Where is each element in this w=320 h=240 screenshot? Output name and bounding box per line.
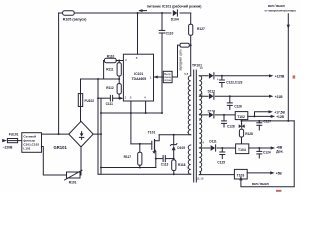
diode D110 (199, 110, 235, 119)
wire filter to bridge (42, 133, 69, 135)
node rail1 cap (221, 75, 223, 77)
svg-text:L101: L101 (23, 146, 30, 150)
wire drain to transformer (159, 134, 191, 136)
diode D111 (199, 139, 235, 151)
node pin4 end (145, 112, 147, 114)
svg-text:R118: R118 (178, 163, 186, 167)
svg-text:+21В: +21В (275, 95, 283, 99)
node C127 tap (258, 120, 260, 122)
wire filter bottom out (42, 147, 67, 176)
svg-text:D104: D104 (171, 18, 179, 22)
svg-text:C127: C127 (263, 119, 271, 123)
wire R110 left drop (103, 61, 105, 80)
node rail2 cap (229, 95, 231, 97)
svg-text:IC101: IC101 (134, 72, 143, 76)
node bridge right bus (100, 133, 102, 135)
wire T103 out arrow +5V (247, 172, 270, 174)
wire arrow +12V (271, 115, 275, 118)
svg-text:от микроконтроллера: от микроконтроллера (265, 9, 297, 13)
diode pair limiter (239, 121, 245, 128)
node bus113 left (100, 112, 102, 114)
wire rail5 in (199, 174, 234, 176)
node R117 tap (139, 143, 141, 145)
svg-text:FU102: FU102 (85, 99, 95, 103)
capacitor C111 (106, 95, 120, 106)
wire FU102 top feed y79 (81, 78, 120, 80)
svg-text:5,8: 5,8 (184, 72, 188, 76)
svg-text:Т104: Т104 (238, 148, 246, 152)
capacitor C124 (257, 148, 271, 158)
svg-text:TDA4605: TDA4605 (132, 77, 147, 81)
regulator T102 (235, 112, 248, 120)
resistor R118 (172, 160, 186, 174)
wire source return y167.5 (101, 167, 156, 169)
svg-text:C126: C126 (234, 104, 242, 108)
resistor R117 (124, 144, 142, 168)
transistor T101 mosfet (148, 130, 159, 167)
winding secondary (199, 76, 201, 175)
resistor R105 (63, 11, 88, 21)
fuse FU101 with mains arrow (2, 132, 22, 149)
diode D112 (199, 89, 269, 99)
svg-text:C113: C113 (161, 162, 169, 166)
svg-text:R127: R127 (197, 27, 205, 31)
svg-text:зарядная цепь: зарядная цепь (178, 49, 182, 71)
wire charge circuit drop (172, 45, 177, 77)
node R111 top (118, 60, 120, 62)
wire bridge bottom to R101 (80, 147, 82, 175)
svg-text:16: 16 (200, 66, 204, 70)
svg-text:R111: R111 (106, 68, 113, 72)
wire pin4 stub (145, 101, 147, 113)
wire rail1 arrow +125V (269, 74, 273, 77)
wire ground bus y113 (101, 112, 162, 114)
diode D109 rail1 (209, 73, 215, 79)
wire primary ground bus (98, 173, 191, 175)
capacitor C128 (222, 115, 235, 128)
svg-text:вкл / выкл: вкл / выкл (268, 4, 285, 8)
svg-text:15,16: 15,16 (196, 176, 204, 180)
node charge-resistor tap (190, 44, 192, 46)
svg-text:+12В: +12В (276, 115, 284, 119)
svg-text:D105: D105 (177, 146, 185, 150)
wire T104 out arrow +8V (249, 147, 271, 149)
node T104 out cap (258, 147, 260, 149)
regulator T103 (234, 169, 247, 179)
node pin5 cross (130, 112, 132, 114)
svg-text:~220В: ~220В (3, 145, 13, 149)
capacitor C113 (156, 156, 174, 167)
svg-text:+125В: +125В (275, 74, 285, 78)
node busA top (97, 78, 99, 80)
wire T102 out (248, 115, 271, 117)
svg-text:С122,С123: С122,С123 (226, 81, 242, 85)
svg-text:C124: C124 (263, 151, 271, 155)
node snubber mid (173, 158, 175, 160)
red mark bottom (276, 190, 281, 192)
svg-text:R101: R101 (69, 181, 77, 185)
op-amp U IC101 TDA4605 box (123, 54, 153, 101)
wire rail2 arrow +21V (269, 95, 273, 98)
wire arrow into pin2 (119, 97, 120, 99)
svg-text:C110: C110 (166, 31, 174, 35)
node out split (254, 115, 256, 117)
winding primary lower (188, 145, 190, 174)
node R117 bottom (139, 167, 141, 169)
red mark a (293, 75, 296, 78)
arrow to label питание IC101 (140, 10, 147, 12)
svg-text:+5В: +5В (276, 171, 283, 175)
wire pin8 stub (137, 13, 139, 54)
svg-text:C125: C125 (217, 161, 225, 165)
wire pin2 feed (98, 97, 110, 99)
node snubber tap (173, 134, 175, 136)
wire uC control down (287, 14, 289, 121)
resistor R128 (239, 129, 253, 144)
wire block to IC pin1 with arrow (154, 76, 164, 79)
fuse FU102 (78, 79, 94, 121)
diode D104 (171, 10, 180, 22)
capacitor C110 (159, 30, 173, 113)
wire bus B (100, 98, 102, 174)
resistor R112 (106, 84, 121, 99)
node R118 ground (173, 173, 175, 175)
diode D105 zener (171, 135, 186, 159)
svg-text:FU101: FU101 (9, 132, 19, 136)
wire gate line (131, 143, 152, 145)
resistor R111 (106, 61, 121, 77)
svg-text:Т103: Т103 (237, 173, 245, 177)
svg-text:C128: C128 (227, 124, 235, 128)
svg-text:D111: D111 (209, 139, 216, 143)
capacitor C125 (217, 148, 225, 165)
svg-text:Т101: Т101 (148, 130, 156, 134)
svg-text:R112: R112 (106, 86, 114, 90)
wire R105 left drop (58, 13, 60, 134)
wire control loop to T103 (241, 121, 294, 187)
svg-text:+17,5В: +17,5В (274, 110, 285, 114)
wire top feed from R105 to R127 corner (59, 12, 191, 14)
wire control line from T102 (241, 120, 243, 121)
wire bridge right to bus (93, 133, 101, 135)
node C110 ground (161, 112, 163, 114)
wire R127 column down to transformer primary top (190, 13, 192, 76)
wire R111-R112 junction (118, 76, 120, 84)
svg-text:Т102: Т102 (237, 115, 245, 119)
node source snubber (155, 158, 157, 160)
winding primary upper (188, 76, 191, 135)
node startup tap (58, 133, 60, 135)
resistor R110 (104, 54, 124, 62)
resistor charge circuit (178, 43, 190, 47)
node rail3 cap (223, 114, 225, 116)
svg-text:огран: огран (164, 79, 171, 82)
bridge rectifier GR101 (54, 121, 94, 150)
block rectifier-limiter (163, 71, 172, 82)
svg-text:R105 (запуск): R105 (запуск) (63, 17, 87, 21)
node C110 junction (161, 12, 163, 14)
resistor R127 (189, 24, 205, 35)
svg-text:питание IC101 (рабочий режим): питание IC101 (рабочий режим) (147, 5, 202, 9)
wire pin5 drive line (130, 101, 132, 144)
regulator T104 (236, 144, 249, 154)
node control T102 (241, 120, 243, 122)
svg-text:Деж.: Деж. (276, 150, 283, 154)
svg-text:R117: R117 (124, 155, 132, 159)
wire C110 column (161, 13, 163, 30)
wire branch +17,5V (255, 112, 269, 117)
wire rail1 (199, 75, 269, 77)
capacitor C122 C123 (217, 76, 243, 87)
node rail4 cap (221, 147, 223, 149)
node source return left (100, 167, 102, 169)
node pin8 junction (137, 12, 139, 14)
node pin2 wire (118, 97, 120, 99)
capacitor C127 (257, 119, 271, 130)
svg-text:GR101: GR101 (54, 145, 68, 150)
node busA pin2wire (97, 97, 99, 99)
wire bus A (97, 79, 99, 174)
transformer TR101 (184, 64, 204, 182)
svg-text:+: + (217, 78, 219, 82)
svg-text:C111: C111 (106, 102, 113, 106)
block mains filter (22, 133, 42, 153)
svg-text:R128: R128 (245, 132, 253, 136)
capacitor C126 (227, 96, 242, 109)
node control corner (287, 120, 289, 122)
svg-text:вкл / выкл: вкл / выкл (252, 182, 269, 186)
thermistor R101 (65, 170, 83, 184)
node divider mid (118, 78, 120, 80)
